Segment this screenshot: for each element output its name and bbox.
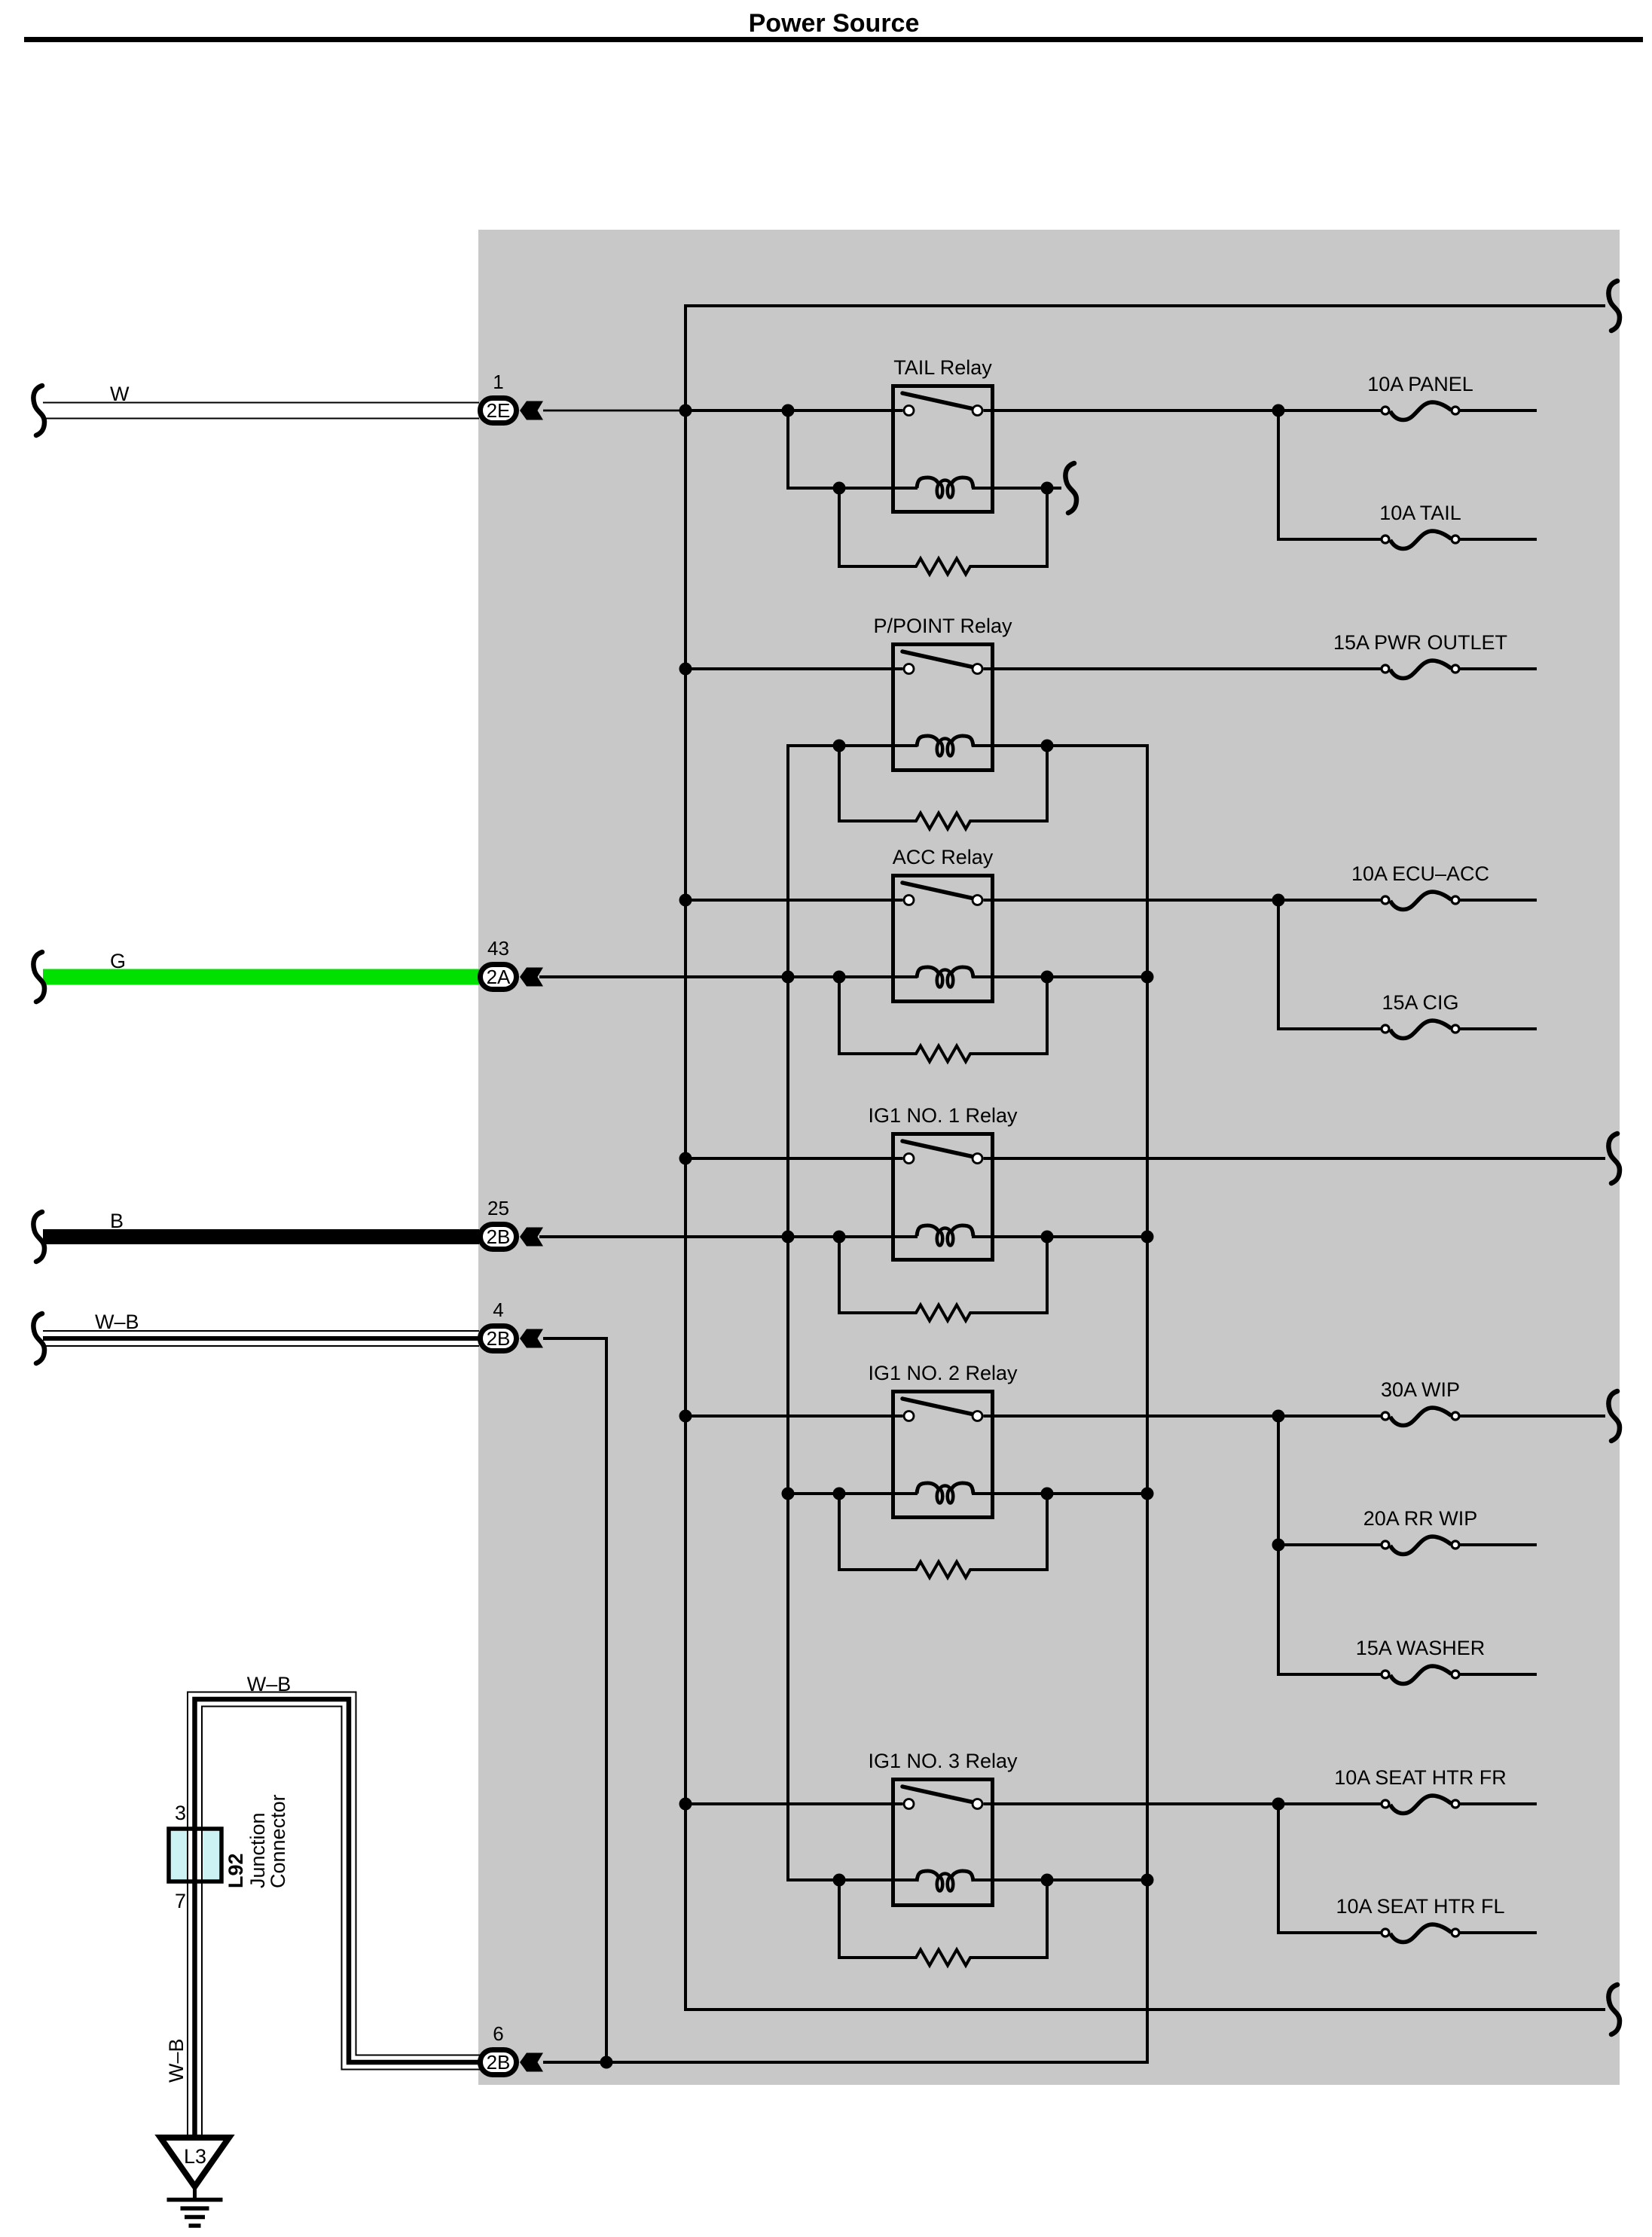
svg-text:2B: 2B [487, 2051, 511, 2074]
svg-text:10A SEAT HTR FR: 10A SEAT HTR FR [1334, 1766, 1507, 1789]
svg-text:15A PWR OUTLET: 15A PWR OUTLET [1333, 631, 1507, 654]
svg-text:IG1 NO. 1 Relay: IG1 NO. 1 Relay [868, 1104, 1018, 1127]
svg-text:30A WIP: 30A WIP [1381, 1378, 1460, 1401]
svg-text:W–B: W–B [165, 2038, 188, 2083]
svg-text:6: 6 [493, 2022, 503, 2045]
svg-text:43: 43 [487, 937, 509, 960]
svg-text:10A TAIL: 10A TAIL [1379, 502, 1461, 524]
svg-text:G: G [110, 950, 126, 972]
svg-text:L3: L3 [184, 2145, 206, 2168]
svg-text:IG1 NO. 2 Relay: IG1 NO. 2 Relay [868, 1362, 1018, 1384]
svg-text:P/POINT Relay: P/POINT Relay [873, 615, 1012, 637]
svg-text:3: 3 [175, 1802, 186, 1824]
svg-text:Junction: Junction [246, 1812, 269, 1888]
svg-text:15A WASHER: 15A WASHER [1356, 1637, 1486, 1659]
svg-text:2B: 2B [487, 1225, 511, 1248]
svg-text:2B: 2B [487, 1327, 511, 1350]
svg-text:ACC Relay: ACC Relay [893, 846, 994, 868]
svg-text:Connector: Connector [267, 1794, 289, 1888]
svg-text:2A: 2A [487, 966, 511, 988]
svg-text:10A PANEL: 10A PANEL [1367, 373, 1473, 395]
svg-text:15A CIG: 15A CIG [1382, 991, 1458, 1014]
svg-text:2E: 2E [487, 399, 511, 422]
svg-text:B: B [110, 1210, 124, 1232]
svg-text:25: 25 [487, 1197, 509, 1219]
svg-text:1: 1 [493, 371, 503, 393]
svg-text:4: 4 [493, 1299, 503, 1321]
svg-text:W: W [110, 383, 130, 405]
svg-text:IG1 NO. 3 Relay: IG1 NO. 3 Relay [868, 1750, 1018, 1772]
svg-text:20A RR WIP: 20A RR WIP [1363, 1507, 1478, 1530]
svg-text:W–B: W–B [95, 1311, 139, 1333]
svg-text:Power Source: Power Source [749, 9, 920, 38]
svg-text:TAIL Relay: TAIL Relay [893, 356, 992, 379]
svg-text:7: 7 [175, 1890, 186, 1912]
svg-text:W–B: W–B [247, 1673, 292, 1695]
svg-text:10A SEAT HTR FL: 10A SEAT HTR FL [1336, 1895, 1504, 1918]
svg-text:L92: L92 [224, 1853, 247, 1888]
svg-text:10A ECU–ACC: 10A ECU–ACC [1351, 862, 1489, 885]
